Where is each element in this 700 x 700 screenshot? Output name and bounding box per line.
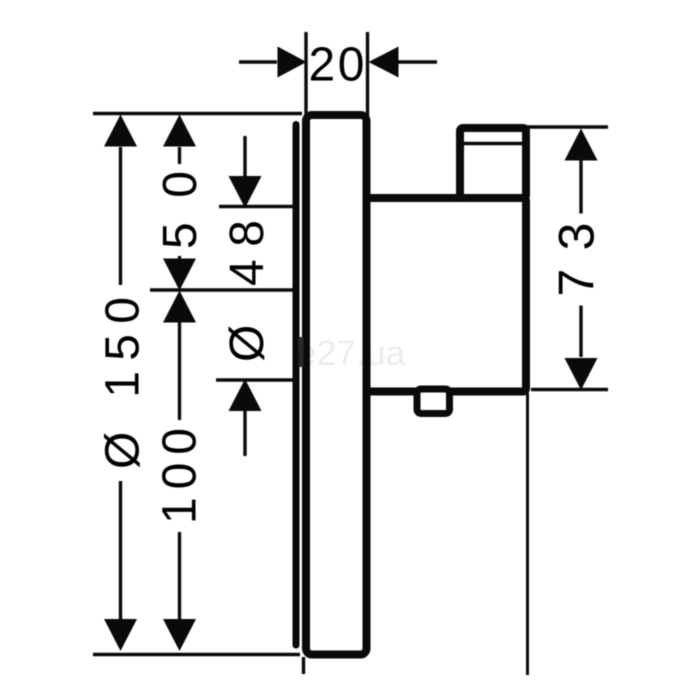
escutcheon plate (306, 115, 367, 655)
extension line O48 top (y=206.5) (219, 205, 295, 208)
dimension O48 lower arrow (229, 379, 262, 456)
extension line 20-left (x=306) (304, 32, 307, 116)
dimension 73 label (549, 214, 605, 306)
dimension 100 label (153, 420, 206, 532)
dimension 50 label (154, 164, 207, 256)
svg-text:20: 20 (309, 38, 365, 91)
extension line 20-right (x=367.5) (366, 32, 369, 116)
wall reference vertical line below body (526, 393, 529, 675)
svg-text:e27.ua: e27.ua (297, 333, 406, 373)
handle (460, 128, 526, 198)
extension line O48 bottom (y=380) (216, 378, 295, 381)
tick below plate bottom (302, 657, 305, 674)
extension line top-left (plate top, y=113.5) (93, 112, 302, 115)
dimension O150 line (104, 115, 137, 652)
stop tab below body (417, 389, 450, 414)
dimension O48 upper arrow (229, 136, 262, 208)
dimension 73 line (565, 129, 598, 391)
dimension O48 label (221, 220, 274, 362)
extension line 73-top (y=127) (526, 125, 608, 128)
dimension 20 line (239, 47, 437, 78)
plate front edge strip (293, 125, 300, 646)
handle inner line (463, 142, 523, 146)
extension line mid (50/100 split, y=290) (150, 288, 295, 291)
dimension 50 line (upper segment) (163, 115, 196, 291)
svg-text:100: 100 (153, 428, 206, 524)
extension line 73-bottom (y=389.5) (531, 388, 608, 391)
dimension 100 line (lower segment) (163, 291, 196, 652)
dimension O150 label (96, 285, 149, 481)
baseline extension (plate bottom, y=654.5) (93, 653, 300, 656)
svg-text:Ø 150: Ø 150 (96, 297, 149, 469)
valve body housing (367, 198, 527, 392)
watermark fragment darkening plate edge gap (299, 337, 304, 367)
